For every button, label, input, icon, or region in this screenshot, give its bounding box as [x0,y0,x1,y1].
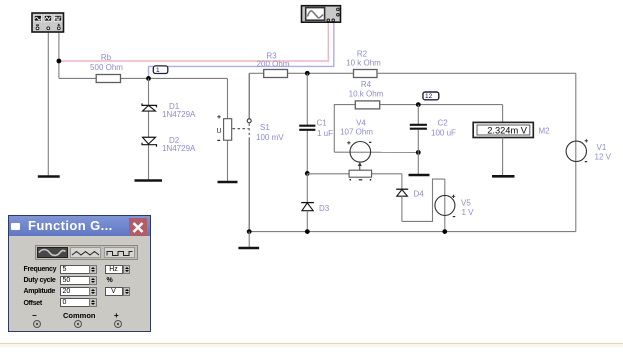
svg-text:C2: C2 [438,119,449,128]
ground below control box [218,181,238,184]
node junction R3/C1 [305,71,310,76]
node junction C1 / pot row [305,171,310,176]
svg-text:V1: V1 [597,143,607,152]
node junction bottom switch [247,229,252,234]
svg-text:U: U [217,128,222,135]
ground below generator [38,175,60,178]
wire V4 row [334,151,418,153]
close button [129,218,147,237]
hz unit box [105,265,123,274]
Function Generator dialog window [8,215,151,332]
source V4 107 Ohm [340,119,373,163]
svg-text:10 k Ohm: 10 k Ohm [346,59,381,68]
wire blue from node 1 to oscilloscope [149,22,334,79]
oscilloscope icon [302,6,341,23]
svg-text:1: 1 [156,67,160,74]
node 12 label box [423,92,439,100]
svg-text:Rb: Rb [101,53,112,62]
potentiometer (V4 control) [349,162,372,181]
node junction Rb / D1 / blue tap [146,76,151,81]
wire M2 to ground [502,138,504,177]
capacitor C2 100 uF [410,105,456,175]
svg-text:D4: D4 [414,190,425,199]
switch S1 control box U [217,115,232,141]
wire Rb row [59,77,228,79]
svg-text:200 Ohm: 200 Ohm [257,60,290,69]
svg-text:1N4729A: 1N4729A [162,110,196,119]
switch S1 [247,73,284,231]
capacitor C1 1 uF [299,73,333,173]
title icon [11,223,20,230]
title text [28,218,113,233]
amplitude row [24,288,56,295]
diode D4 [396,174,424,222]
svg-text:C1: C1 [317,119,328,128]
svg-text:R4: R4 [361,80,372,89]
source V5 1 V [435,179,474,232]
wire generator common to ground [47,30,49,176]
wire generator plus terminal down [58,30,60,79]
wire R4 row [334,105,502,153]
svg-text:M2: M2 [539,127,551,136]
svg-text:12 V: 12 V [595,153,612,162]
triangle button [70,247,101,258]
wire to control box U [227,78,229,181]
frequency row [24,266,57,273]
offset row [24,300,42,307]
svg-text:D3: D3 [319,204,330,213]
waveform buttons [35,245,138,260]
diode D2 1N4729A (zener, cathode down) [142,136,196,153]
svg-text:500 Ohm: 500 Ohm [90,63,123,72]
ground below M2 [492,175,515,178]
diode D1 1N4729A (zener, cathode up) [142,102,196,119]
node junction at generator output [57,59,62,64]
wire D1 D2 branch [148,78,150,180]
svg-text:V5: V5 [461,199,471,208]
multimeter M2 [473,122,550,137]
wire potentiometer row [307,173,402,175]
resistor R3 200 Ohm [257,52,290,78]
resistor R2 10 k Ohm [346,50,381,78]
svg-text:S1: S1 [260,123,270,132]
svg-text:1 uF: 1 uF [317,129,333,138]
wire pink from generator to oscilloscope [59,22,328,62]
svg-text:1N4729A: 1N4729A [162,144,196,153]
wire bottom ground stem [248,232,250,248]
terminal labels [32,311,37,320]
wire D4 to V5 [402,179,445,221]
wire R2 to V1 [377,72,576,74]
node junction bottom V5 [442,229,447,234]
svg-text:12: 12 [425,93,433,100]
svg-text:1 V: 1 V [462,208,475,217]
svg-text:2.324m V: 2.324m V [487,126,528,136]
terminal circles [33,320,41,328]
dashed control line of S1 [233,128,249,130]
node 1 label box [153,66,168,74]
svg-text:10.k Ohm: 10.k Ohm [349,90,384,99]
percent sign [107,277,113,284]
resistor Rb 500 Ohm [90,53,123,83]
svg-text:V4: V4 [356,119,366,128]
wire bottom rail [249,231,576,233]
svg-text:R2: R2 [357,50,368,59]
ground bottom [238,247,259,250]
function generator icon [32,13,64,32]
ground below C2 [409,174,430,177]
ground below D2 [135,179,163,182]
square button [104,247,135,258]
svg-text:107 Ohm: 107 Ohm [340,128,373,137]
diode D3 [301,173,330,231]
svg-text:100 uF: 100 uF [431,129,456,138]
bottom status strip [0,343,623,347]
resistor R4 10.k Ohm [349,80,384,109]
dialog title bar [9,216,150,236]
sine button (pressed) [37,247,68,258]
node junction bottom D3 [305,229,310,234]
node junction R4/C2 [416,102,421,107]
duty cycle row [24,277,56,284]
source V1 12 V [566,73,612,231]
wire R3 row [249,72,353,74]
v unit box [105,287,123,296]
svg-text:100 mV: 100 mV [256,133,284,142]
node junction V4/C2 [416,150,421,155]
